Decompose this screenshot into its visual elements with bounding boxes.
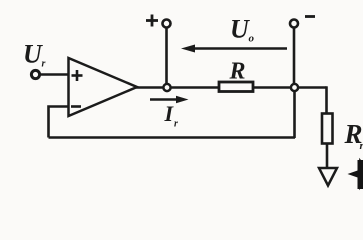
op-amp U1 — [69, 58, 138, 116]
svg-text:r: r — [42, 59, 46, 70]
arrow U_o (pointing left) — [181, 45, 287, 53]
node A (output junction) — [163, 84, 170, 91]
svg-text:o: o — [249, 33, 255, 45]
wire right feedback riser — [293, 90, 296, 138]
wire input to op-amp + — [40, 73, 71, 76]
wire inverting input feedback (left L) — [49, 107, 70, 138]
resistor R_r (load, vertical) — [322, 114, 333, 144]
wire node B to load branch — [325, 86, 328, 114]
wire minus terminal to node B — [293, 28, 296, 85]
node B — [291, 84, 298, 91]
svg-text:r: r — [174, 119, 178, 130]
plus terminal — [163, 20, 171, 28]
resistor R — [219, 82, 253, 92]
ground — [319, 168, 337, 186]
label I_r (current) — [164, 101, 179, 130]
svg-text:U: U — [230, 15, 250, 44]
wire resistor to ground — [326, 143, 329, 169]
minus terminal — [290, 20, 298, 28]
wire op-amp output line — [136, 86, 327, 89]
minus sign — [305, 15, 315, 18]
op-amp plus input mark — [72, 70, 83, 81]
label U_o (output voltage) — [230, 15, 255, 45]
wire bottom feedback rail — [49, 136, 296, 139]
svg-text:I: I — [164, 101, 175, 126]
op-amp minus input mark — [71, 105, 81, 108]
svg-text:U: U — [23, 40, 43, 69]
svg-text:r: r — [360, 140, 363, 152]
arrow I_r (pointing right) — [150, 96, 189, 103]
wire node A to plus terminal — [165, 28, 168, 84]
label U_r (input voltage) — [23, 40, 46, 70]
input terminal — [31, 70, 39, 78]
svg-text:R: R — [229, 59, 246, 85]
plus sign — [146, 15, 158, 27]
decorative star fragment at right edge — [348, 158, 363, 190]
label R_r — [344, 119, 363, 152]
